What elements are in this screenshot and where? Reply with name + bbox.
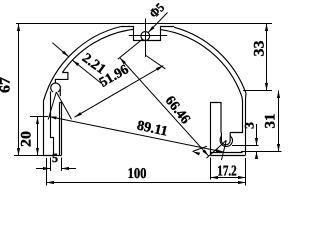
inner arc right <box>161 30 242 97</box>
keyhole bulge <box>220 136 232 147</box>
dim 31 <box>278 91 280 152</box>
ext 66.46 H <box>118 39 143 59</box>
channel floor <box>211 152 243 154</box>
dim 89.11 <box>49 117 224 153</box>
inner arc left <box>62 29 133 72</box>
hole phi5 <box>141 32 150 41</box>
dim 51.96 <box>75 66 164 118</box>
svg-text:17.2: 17.2 <box>217 163 237 179</box>
ext 66.46 K <box>207 140 227 158</box>
outer arc right <box>174 27 246 94</box>
outer arc left <box>44 27 121 101</box>
top notch <box>121 27 174 41</box>
dim 67 <box>18 24 20 156</box>
hook mount step <box>55 73 68 84</box>
dim 66.46 <box>120 58 209 157</box>
ext top <box>16 23 272 25</box>
right wall outer <box>245 94 248 156</box>
dim 33 <box>266 24 268 91</box>
svg-text:67: 67 <box>0 77 14 93</box>
svg-text:20: 20 <box>19 131 35 147</box>
ext bottom left <box>14 155 48 157</box>
dim 100 <box>47 182 246 184</box>
svg-text:89.11: 89.11 <box>136 119 169 140</box>
svg-text:31: 31 <box>263 114 279 129</box>
boss right stub <box>59 89 61 96</box>
fin <box>211 103 222 156</box>
keyhole slot <box>221 133 230 145</box>
boss circle <box>51 83 61 92</box>
svg-text:3: 3 <box>242 121 257 129</box>
svg-text:Φ5: Φ5 <box>146 0 168 21</box>
ext 17.2 left <box>210 158 212 180</box>
svg-text:33: 33 <box>252 41 268 57</box>
left wall outer <box>43 100 45 156</box>
centermark top <box>145 19 147 58</box>
ext 5 <box>50 158 52 172</box>
ext 51.96 H <box>145 55 165 69</box>
ext 33 bottom <box>243 90 272 92</box>
channel bottom <box>211 155 246 157</box>
dim 3 <box>256 124 258 146</box>
left rib <box>60 103 62 156</box>
dim 20 <box>37 117 39 156</box>
dim 5 arrows <box>36 168 51 170</box>
left wall inner <box>51 92 54 156</box>
ext 89.11 P <box>48 92 56 120</box>
ext 51.96 P <box>56 92 71 119</box>
svg-text:100: 100 <box>128 166 147 182</box>
flipped arrow <box>193 146 208 151</box>
right wall inner <box>230 96 243 133</box>
dim 2.21 <box>52 43 68 57</box>
ext 100 <box>46 158 48 186</box>
ext 31 bottom <box>241 151 282 153</box>
dim 17.2 <box>211 177 246 179</box>
left foot bottom <box>44 155 62 157</box>
svg-text:5: 5 <box>52 151 58 165</box>
leader phi5 <box>148 13 167 33</box>
ext 89.11 K <box>222 140 227 160</box>
ext 3 top <box>232 145 259 147</box>
svg-text:66.46: 66.46 <box>162 94 193 128</box>
ext 20 top <box>30 116 48 118</box>
